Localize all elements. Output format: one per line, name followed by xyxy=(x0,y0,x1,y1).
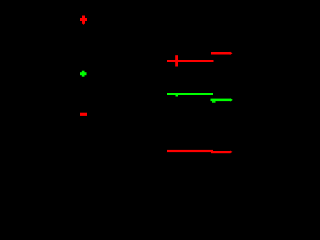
node C: red horizontal error bar with cross xyxy=(167,55,214,66)
node G: green right arrow with tick xyxy=(211,98,233,103)
node B: red right arrow (upper right) xyxy=(211,52,233,55)
node H1: red horizontal error bar (bottom) xyxy=(167,150,213,152)
node F: green horizontal error bar with tick xyxy=(167,93,213,97)
node A: red cross data point xyxy=(80,16,87,25)
node D: green cross data point xyxy=(80,71,87,77)
node H2: red right arrow (bottom) xyxy=(211,151,233,154)
node E: red dash data point xyxy=(80,113,87,116)
